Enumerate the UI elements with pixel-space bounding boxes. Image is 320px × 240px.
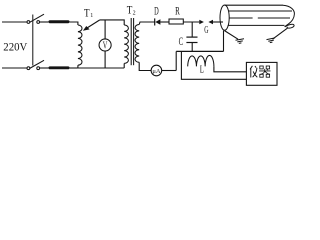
switch S linkage bar xyxy=(32,15,34,66)
label T2 xyxy=(127,2,136,16)
voltmeter V xyxy=(99,39,111,51)
cable bottom edge xyxy=(228,24,285,26)
svg-text:1: 1 xyxy=(90,13,93,19)
cable left ground lead xyxy=(225,31,239,40)
T2 secondary bottom lead xyxy=(139,62,151,70)
ground symbol right xyxy=(267,38,276,43)
svg-text:T: T xyxy=(84,5,90,19)
inductor L xyxy=(188,55,214,66)
output rail to T2 primary xyxy=(100,20,124,25)
instrument branch left drop xyxy=(181,51,246,79)
wire fuse to T1 top corner xyxy=(70,22,78,25)
transformer T2 primary winding xyxy=(124,25,128,63)
label T1 xyxy=(84,5,93,19)
autotransformer T1 winding xyxy=(78,25,82,65)
instrument text qi (Chinese) xyxy=(259,66,270,77)
measuring rail xyxy=(176,50,223,52)
svg-text:L: L xyxy=(200,65,204,76)
cable right ground lead xyxy=(273,28,288,39)
discharge gap G right arrow xyxy=(208,20,223,24)
svg-text:μA: μA xyxy=(152,68,160,75)
node C junction lead xyxy=(191,22,193,37)
wire R to gap xyxy=(183,21,199,23)
svg-text:D: D xyxy=(154,6,159,18)
wire diode to R xyxy=(160,21,169,23)
resistor R xyxy=(169,19,183,24)
transformer T2 secondary winding xyxy=(135,25,139,63)
svg-text:R: R xyxy=(175,6,180,18)
switch S bottom blade xyxy=(30,60,44,68)
inductor right lead to instrument xyxy=(214,66,247,71)
cable top edge xyxy=(225,4,283,6)
cable right end curl xyxy=(285,24,294,28)
cable sample left end cap (ellipse) xyxy=(220,5,229,30)
switch S bottom pole contact right xyxy=(37,67,40,70)
switch S top pole contact right xyxy=(37,21,40,24)
voltmeter V top lead xyxy=(104,20,106,39)
cable inner line xyxy=(229,10,293,12)
switch S top blade xyxy=(30,14,44,22)
transformer T2 core xyxy=(130,18,132,65)
fuse FU2 (thick bar) xyxy=(49,66,70,69)
wire top-left xyxy=(2,21,27,23)
svg-text:G: G xyxy=(204,25,209,36)
switch S top pole contact left xyxy=(27,21,30,24)
instrument text yi (Chinese) xyxy=(250,66,257,78)
wire top after switch xyxy=(40,21,49,23)
ground symbol left xyxy=(236,39,245,44)
switch S bottom pole contact left xyxy=(27,67,30,70)
svg-text:V: V xyxy=(103,40,108,51)
svg-text:2: 2 xyxy=(133,11,136,17)
capacitor C xyxy=(186,37,197,42)
svg-text:C: C xyxy=(179,36,184,48)
voltmeter V bottom lead xyxy=(104,51,106,68)
diode D xyxy=(155,18,161,25)
bottom rail T1 to T2 xyxy=(78,67,124,69)
fuse FU1 (thick bar) xyxy=(49,20,70,23)
cable core (dashed) xyxy=(229,17,252,19)
svg-text:220V: 220V xyxy=(3,40,27,54)
instrument box xyxy=(246,62,277,85)
microammeter uA xyxy=(151,65,162,76)
wire fuse to bottom rail xyxy=(70,67,78,69)
T1 wiper arrow xyxy=(83,20,100,31)
capacitor C bottom lead xyxy=(191,43,193,52)
wire bottom-left xyxy=(2,67,27,69)
cable right end curve xyxy=(283,5,294,27)
wire bottom after switch xyxy=(40,67,49,69)
T1 winding bottom lead xyxy=(77,65,79,68)
discharge gap G left arrow xyxy=(199,20,204,24)
microammeter right lead xyxy=(162,70,177,72)
T2 secondary top lead / wire to diode xyxy=(139,22,155,25)
microammeter lead up xyxy=(175,51,177,70)
wire cable sheath down xyxy=(223,31,225,52)
T2 primary bottom lead xyxy=(123,63,125,68)
